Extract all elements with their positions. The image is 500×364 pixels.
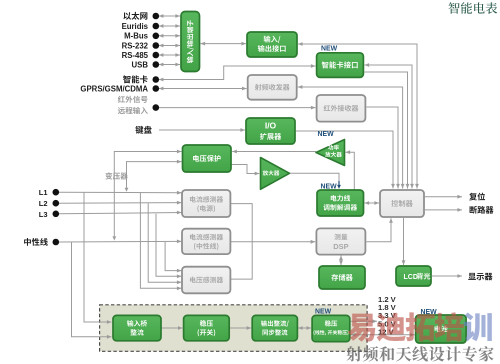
svg-text:Euridis: Euridis	[122, 22, 149, 31]
svg-text:NEW: NEW	[321, 46, 338, 53]
svg-text:I/O: I/O	[265, 121, 277, 131]
svg-text:L2: L2	[39, 199, 48, 208]
svg-text:L1: L1	[39, 188, 48, 197]
svg-text:DSP: DSP	[333, 242, 348, 251]
svg-text:NEW: NEW	[315, 309, 332, 316]
svg-text:RS-232: RS-232	[122, 41, 149, 50]
svg-text:NEW: NEW	[318, 131, 335, 138]
svg-text:L3: L3	[39, 210, 48, 219]
svg-text:M-Bus: M-Bus	[124, 32, 148, 41]
svg-text:NEW: NEW	[321, 184, 338, 191]
svg-text:GPRS/GSM/CDMA: GPRS/GSM/CDMA	[80, 84, 148, 93]
svg-text:USB: USB	[132, 60, 149, 69]
svg-text:RS-485: RS-485	[122, 51, 149, 60]
svg-text:LCD: LCD	[404, 274, 418, 281]
